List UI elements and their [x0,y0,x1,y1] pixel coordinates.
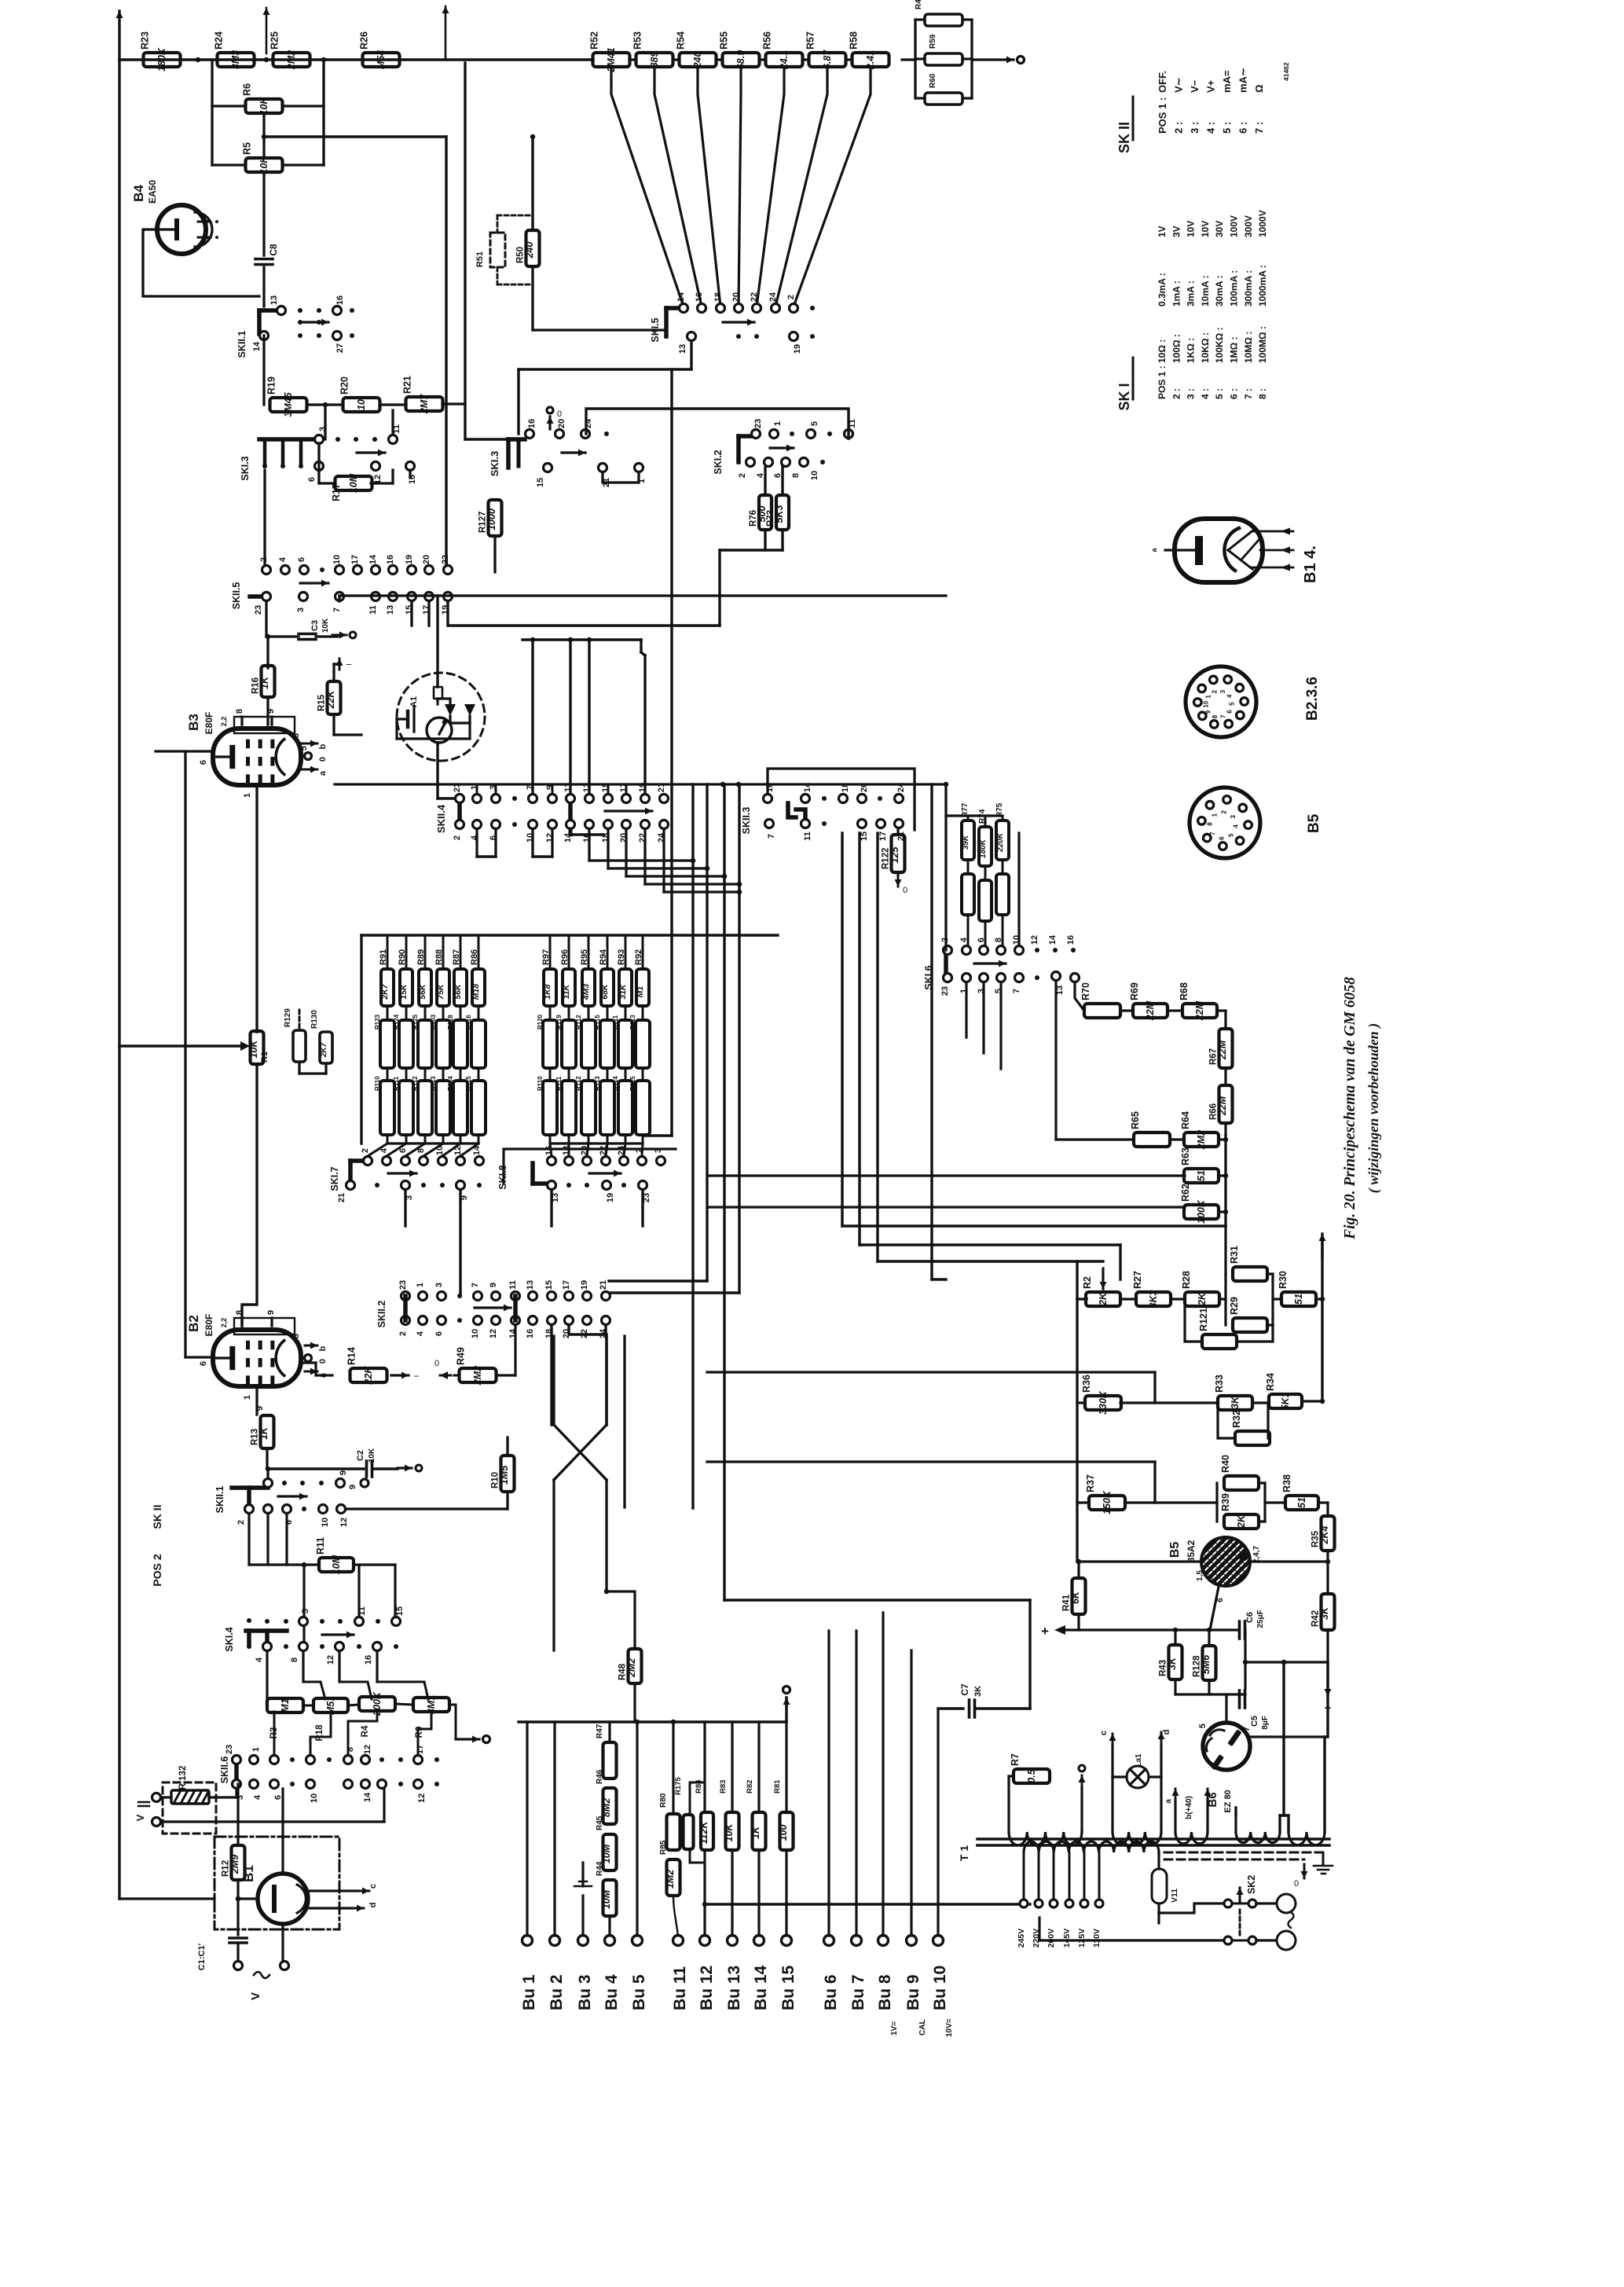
svg-text:Bu 10: Bu 10 [931,1966,949,2010]
svg-text:51: 51 [1196,1170,1207,1181]
svg-text:R121: R121 [1198,1308,1209,1331]
svg-text:EA50: EA50 [147,180,158,204]
svg-text:8: 8 [1212,714,1219,718]
svg-text:R52: R52 [589,31,600,50]
svg-text:Bu 2: Bu 2 [548,1974,566,2010]
svg-text:7: 7 [1219,714,1226,718]
svg-text:SKI.2: SKI.2 [713,450,724,474]
svg-text:4M3: 4M3 [581,984,591,1001]
svg-text:R29: R29 [1229,1297,1240,1315]
svg-text:5K1: 5K1 [1280,1392,1291,1410]
svg-text:2M9: 2M9 [229,1855,240,1874]
svg-text:5: 5 [1229,702,1236,706]
svg-text:R111: R111 [555,1076,563,1091]
svg-text:9: 9 [348,1485,357,1489]
svg-text:7: 7 [1242,1727,1252,1731]
svg-text:R14: R14 [346,1347,357,1365]
svg-text:R113: R113 [430,1076,437,1091]
svg-text:R83: R83 [719,1780,728,1793]
svg-text:R88: R88 [434,949,444,965]
svg-text:2,2: 2,2 [220,1318,228,1328]
svg-text:3: 3 [291,1334,301,1338]
svg-text:b(+40): b(+40) [1185,1796,1193,1819]
svg-text:2 :: 2 : [1171,388,1182,399]
svg-text:10Ω :: 10Ω : [1157,340,1168,363]
svg-text:1KΩ :: 1KΩ : [1186,338,1197,363]
svg-text:11: 11 [508,1280,518,1290]
svg-text:100K: 100K [1196,1199,1207,1224]
svg-text:2M2: 2M2 [286,50,297,70]
svg-text:240: 240 [524,242,535,259]
svg-text:12: 12 [1030,935,1039,945]
svg-text:R69: R69 [1129,982,1140,1000]
svg-text:R33: R33 [1214,1375,1225,1393]
svg-text:6: 6 [307,477,317,482]
svg-text:8: 8 [290,1657,299,1662]
svg-text:SKII.5: SKII.5 [231,582,242,610]
svg-text:R43: R43 [1159,1660,1168,1676]
svg-text:b: b [318,1345,328,1351]
svg-text:8M2: 8M2 [601,1798,612,1817]
svg-text:10M: 10M [348,473,359,493]
svg-text:10K: 10K [248,1040,259,1059]
svg-text:R34: R34 [1265,1373,1276,1391]
svg-text:100: 100 [778,1825,789,1841]
svg-text:0: 0 [903,886,907,895]
svg-text:22K: 22K [363,1366,374,1386]
svg-text:Bu 3: Bu 3 [576,1974,594,2010]
svg-text:10MΩ :: 10MΩ : [1243,332,1254,363]
svg-text:3: 3 [1219,689,1226,693]
svg-text:0: 0 [318,757,328,762]
svg-text:2: 2 [398,1331,408,1336]
svg-text:SK II: SK II [1116,122,1132,153]
svg-text:2K: 2K [1197,1292,1208,1306]
svg-text:10: 10 [310,1793,319,1803]
svg-text:23: 23 [254,605,263,615]
svg-text:B3: B3 [186,714,201,731]
svg-text:1000: 1000 [486,508,497,530]
svg-text:22M: 22M [1217,1096,1228,1116]
svg-text:3K3: 3K3 [1148,1290,1159,1308]
svg-text:5: 5 [1198,1724,1208,1728]
svg-text:POS 1 :: POS 1 : [1157,97,1168,134]
svg-text:R64: R64 [1180,1111,1191,1129]
svg-text:2M2: 2M2 [1196,1130,1207,1150]
svg-text:EZ 80: EZ 80 [1223,1790,1233,1812]
svg-text:−: − [346,659,352,670]
svg-text:6: 6 [297,557,306,562]
svg-text:R49: R49 [456,1347,467,1365]
svg-text:R125: R125 [412,1014,419,1030]
svg-text:R103: R103 [430,1014,437,1030]
svg-text:R130: R130 [310,1010,319,1029]
svg-text:31K: 31K [618,983,628,1000]
svg-text:R20: R20 [339,376,350,395]
svg-text:8 :: 8 : [1257,388,1268,399]
svg-text:V−: V− [1189,79,1201,93]
svg-text:SKII.2: SKII.2 [376,1301,387,1328]
svg-text:d: d [1162,1730,1171,1735]
svg-text:SKI.3: SKI.3 [240,456,251,480]
svg-text:39K: 39K [962,835,970,850]
svg-text:6: 6 [199,760,208,765]
svg-text:C7: C7 [959,1683,970,1696]
svg-text:3K: 3K [1319,1606,1330,1620]
svg-text:0: 0 [434,1359,439,1368]
svg-text:R18: R18 [315,1724,324,1742]
svg-text:E80F: E80F [203,712,214,735]
svg-text:R95: R95 [580,949,589,965]
svg-text:R41: R41 [1062,1594,1072,1611]
svg-text:112K: 112K [698,1821,709,1845]
svg-text:16: 16 [364,1655,373,1665]
svg-text:6 :: 6 : [1229,388,1240,399]
svg-text:100V: 100V [1229,215,1240,237]
svg-text:1V: 1V [1157,226,1168,237]
svg-text:10K: 10K [321,618,330,633]
svg-text:Bu 6: Bu 6 [822,1974,840,2010]
svg-text:R11: R11 [315,1537,326,1555]
svg-text:1K: 1K [259,676,270,689]
svg-text:c: c [368,1884,378,1889]
svg-text:La1: La1 [1135,1753,1143,1768]
svg-text:+: + [1041,1624,1049,1639]
svg-text:150K: 150K [1102,1490,1113,1514]
svg-text:16: 16 [527,419,537,428]
svg-text:14: 14 [368,554,378,564]
svg-text:17: 17 [878,831,888,841]
svg-text:1000mA :: 1000mA : [1257,265,1268,307]
svg-text:2: 2 [453,835,462,840]
svg-text:R59: R59 [929,34,937,49]
svg-text:1: 1 [243,1395,252,1400]
svg-text:R38: R38 [1281,1474,1292,1492]
svg-text:R15: R15 [317,694,327,711]
svg-text:18: 18 [713,292,723,302]
svg-text:10V: 10V [1200,221,1211,237]
svg-text:17: 17 [350,555,360,564]
svg-text:R32: R32 [1231,1410,1242,1428]
svg-text:2M2: 2M2 [626,1658,637,1678]
svg-text:R39: R39 [1220,1493,1231,1511]
svg-text:23: 23 [453,783,462,792]
svg-text:7: 7 [471,1283,480,1287]
svg-text:10M: 10M [331,1555,342,1574]
svg-text:85A2: 85A2 [1186,1540,1197,1562]
svg-text:M1: M1 [636,986,645,998]
svg-text:R129: R129 [284,1008,292,1027]
svg-text:100MΩ :: 100MΩ : [1257,326,1268,363]
svg-text:10: 10 [356,399,367,410]
svg-text:7: 7 [1012,989,1021,993]
svg-text:R16: R16 [251,677,261,694]
svg-text:200V: 200V [1047,1929,1056,1948]
svg-text:24: 24 [768,292,778,302]
svg-text:C3: C3 [310,620,320,631]
svg-text:75K: 75K [436,983,445,1000]
svg-text:25μF: 25μF [1256,1610,1265,1628]
svg-text:22M: 22M [1145,1000,1156,1021]
svg-text:41462: 41462 [1282,62,1290,81]
svg-text:1K8: 1K8 [543,984,552,999]
svg-text:300V: 300V [1243,215,1254,237]
svg-text:B2: B2 [186,1315,201,1332]
svg-text:1K: 1K [750,1826,761,1839]
svg-text:R110: R110 [537,1076,544,1091]
svg-text:C8: C8 [268,244,279,256]
svg-text:15: 15 [860,831,869,841]
svg-text:300mA :: 300mA : [1243,270,1254,307]
svg-text:1: 1 [773,421,783,426]
svg-text:R115: R115 [465,1076,472,1091]
svg-text:Bu 14: Bu 14 [752,1965,770,2010]
svg-text:R119: R119 [555,1015,563,1030]
svg-text:R70: R70 [1080,982,1091,1000]
svg-text:9: 9 [266,709,276,714]
svg-text:b: b [318,743,328,749]
svg-text:7 :: 7 : [1243,388,1254,399]
svg-text:R96: R96 [560,949,570,965]
svg-text:R19: R19 [266,376,277,395]
svg-text:0: 0 [1294,1879,1299,1889]
svg-text:6: 6 [773,473,783,478]
svg-text:R12: R12 [222,1860,231,1877]
svg-text:51: 51 [1293,1294,1304,1305]
svg-text:12: 12 [339,1518,349,1527]
svg-text:POS 2: POS 2 [151,1554,163,1586]
svg-text:11K: 11K [562,983,571,999]
svg-text:R37: R37 [1085,1474,1096,1492]
svg-text:R63: R63 [1180,1147,1191,1166]
svg-text:51: 51 [1296,1497,1307,1508]
svg-text:10mA :: 10mA : [1200,275,1211,307]
svg-text:8: 8 [1206,822,1213,826]
svg-text:30V: 30V [1214,221,1225,237]
svg-text:R82: R82 [746,1780,754,1793]
svg-text:C2: C2 [356,1450,365,1461]
svg-text:6: 6 [199,1361,208,1366]
svg-text:B1 4.: B1 4. [1302,545,1319,583]
svg-text:5K3: 5K3 [774,505,785,523]
svg-text:5: 5 [1228,833,1235,837]
svg-text:10: 10 [810,471,819,480]
svg-text:10: 10 [332,555,342,564]
svg-text:100KΩ :: 100KΩ : [1214,327,1225,363]
svg-text:Bu 13: Bu 13 [725,1966,743,2010]
svg-text:3mA :: 3mA : [1186,281,1197,307]
svg-text:6K: 6K [1070,1591,1081,1604]
svg-text:R115: R115 [629,1076,636,1091]
svg-text:POS 1 :: POS 1 : [1157,365,1168,399]
svg-text:10: 10 [321,1518,330,1527]
svg-text:B5: B5 [1306,813,1322,833]
svg-text:3M45: 3M45 [283,391,294,417]
svg-text:SKII.3: SKII.3 [741,807,752,835]
svg-text:R116: R116 [465,1015,472,1030]
svg-text:a: a [318,770,328,776]
svg-text:180K: 180K [156,47,167,72]
svg-text:13: 13 [386,605,395,615]
svg-text:14: 14 [363,1792,372,1802]
svg-text:R30: R30 [1278,1271,1289,1289]
svg-text:16: 16 [695,292,704,302]
svg-text:1: 1 [416,1283,425,1287]
svg-text:110V: 110V [1092,1929,1102,1947]
svg-text:2K: 2K [1236,1514,1247,1529]
svg-text:3K: 3K [1167,1657,1178,1670]
svg-text:1M2: 1M2 [665,1870,676,1889]
svg-text:R113: R113 [594,1076,601,1091]
svg-text:B2.3.6: B2.3.6 [1304,677,1321,721]
svg-text:Bu 1: Bu 1 [520,1974,538,2010]
svg-text:R5: R5 [242,142,253,155]
svg-text:21: 21 [599,1280,608,1290]
svg-text:8: 8 [235,709,244,714]
svg-text:12: 12 [326,1655,335,1665]
svg-text:15: 15 [536,478,545,487]
svg-text:13: 13 [526,1280,535,1290]
svg-text:11: 11 [803,831,812,841]
svg-text:10V=: 10V= [945,2018,954,2037]
svg-text:5: 5 [301,1609,310,1613]
svg-text:R76: R76 [749,510,758,527]
svg-text:R127: R127 [478,512,488,534]
svg-text:V+: V+ [1205,79,1217,93]
svg-text:2 :: 2 : [1173,122,1185,134]
svg-text:T 1: T 1 [958,1845,970,1861]
svg-text:2M2: 2M2 [472,1366,483,1386]
svg-text:Bu 4: Bu 4 [603,1974,621,2010]
svg-text:4: 4 [416,1331,425,1336]
svg-text:3K: 3K [973,1686,983,1697]
svg-text:R44: R44 [915,0,923,9]
svg-text:R66: R66 [1209,1103,1219,1120]
svg-text:19: 19 [793,344,802,354]
svg-text:3M3: 3M3 [230,50,241,69]
svg-text:3: 3 [291,733,301,738]
svg-text:6: 6 [434,1331,444,1336]
svg-text:10: 10 [471,1329,480,1338]
svg-text:SKII.1: SKII.1 [214,1486,225,1514]
svg-text:C6: C6 [1245,1612,1255,1623]
svg-text:9: 9 [255,1406,265,1411]
svg-text:R94: R94 [599,949,608,965]
svg-text:56K: 56K [453,983,463,1000]
svg-text:R90: R90 [398,949,407,965]
svg-text:16: 16 [544,1146,554,1155]
svg-text:R53: R53 [632,31,643,50]
svg-text:R118: R118 [447,1015,454,1030]
svg-text:R112: R112 [412,1076,419,1091]
svg-text:−: − [413,1371,419,1382]
svg-text:R68: R68 [1179,982,1190,1000]
svg-text:R124: R124 [393,1014,400,1030]
svg-text:20: 20 [557,419,566,428]
svg-text:12: 12 [363,1745,372,1754]
svg-text:100mA :: 100mA : [1229,270,1240,307]
svg-text:1MΩ :: 1MΩ : [1229,336,1240,363]
svg-text:3V: 3V [1171,226,1182,237]
svg-text:B5: B5 [1168,1542,1182,1558]
svg-text:R17: R17 [331,483,342,501]
svg-text:a: a [1164,1799,1173,1804]
svg-text:2: 2 [786,295,796,299]
svg-text:SK2: SK2 [1246,1875,1257,1894]
svg-text:c: c [1099,1731,1109,1735]
svg-text:3: 3 [296,608,306,612]
svg-text:10M: 10M [601,1889,612,1909]
svg-text:CAL: CAL [918,2019,927,2036]
svg-text:16: 16 [526,1329,535,1338]
svg-text:R65: R65 [1130,1111,1141,1129]
svg-text:21: 21 [337,1193,346,1202]
svg-text:23: 23 [940,986,950,996]
svg-text:Bu 12: Bu 12 [698,1966,716,2010]
svg-text:R114: R114 [447,1076,454,1091]
svg-text:R51: R51 [475,251,485,267]
svg-text:3 :: 3 : [1189,122,1201,134]
svg-text:145V: 145V [1062,1929,1072,1948]
svg-text:19: 19 [405,555,414,564]
svg-text:1,5: 1,5 [1196,1570,1204,1581]
svg-text:4 :: 4 : [1200,388,1211,399]
svg-text:R81: R81 [773,1779,782,1793]
svg-text:Fig. 20. Principeschema van de: Fig. 20. Principeschema van de GM 6058 [1342,977,1358,1240]
svg-text:10K: 10K [724,1823,735,1842]
svg-text:SKII.1: SKII.1 [236,331,247,358]
svg-text:Ω: Ω [1253,85,1265,93]
svg-text:23: 23 [753,419,763,428]
svg-text:6: 6 [273,1795,283,1800]
svg-text:R23: R23 [140,31,151,50]
svg-text:2: 2 [236,1520,246,1525]
svg-text:R89: R89 [416,949,426,965]
svg-text:V11: V11 [1170,1889,1179,1903]
svg-text:1: 1 [1211,813,1218,817]
svg-text:3: 3 [318,427,328,431]
svg-text:11: 11 [357,1606,367,1616]
svg-text:7: 7 [767,834,776,839]
svg-text:5M6: 5M6 [1201,1654,1212,1674]
svg-text:R48: R48 [618,1663,628,1680]
svg-text:0: 0 [557,409,562,419]
svg-text:R123: R123 [374,1014,381,1030]
svg-text:30mA :: 30mA : [1214,275,1225,307]
svg-text:1mA :: 1mA : [1171,281,1182,307]
svg-text:R122: R122 [882,848,891,870]
svg-text:1: 1 [251,1747,261,1752]
svg-text:R40: R40 [1220,1455,1231,1473]
svg-text:17: 17 [416,1745,425,1754]
svg-text:12: 12 [417,1793,427,1803]
svg-text:1: 1 [1222,1768,1231,1772]
svg-text:125: 125 [889,846,900,864]
svg-text:R111: R111 [612,1015,619,1030]
svg-text:8: 8 [346,1747,355,1752]
svg-text:0: 0 [318,1359,328,1364]
svg-text:20: 20 [422,555,431,564]
svg-text:R 132: R 132 [178,1766,188,1790]
svg-text:d: d [368,1903,378,1908]
svg-text:2K4: 2K4 [1319,1525,1330,1544]
svg-text:23: 23 [225,1745,234,1754]
svg-text:3: 3 [1230,814,1237,818]
svg-text:R42: R42 [1311,1610,1321,1627]
svg-text:R128: R128 [1193,1655,1202,1677]
svg-text:R10: R10 [491,1472,500,1489]
svg-text:9: 9 [339,1470,348,1475]
